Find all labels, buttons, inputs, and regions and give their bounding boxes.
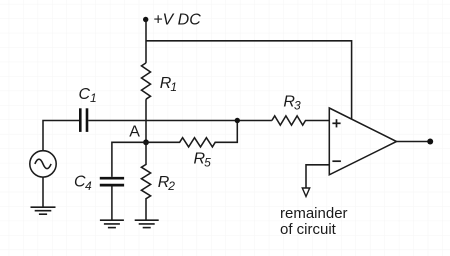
svg-text:5: 5 <box>204 155 211 169</box>
label C1 <box>79 86 97 105</box>
capacitor C4 <box>100 178 124 185</box>
svg-text:1: 1 <box>90 91 97 105</box>
resistor R1 <box>142 63 151 99</box>
wire R1 bottom to node A <box>145 99 147 142</box>
resistor R3 <box>272 116 329 125</box>
svg-text:A: A <box>129 124 140 141</box>
wire source to ground <box>42 177 44 207</box>
wire from +V dot down to R1 <box>145 20 147 63</box>
resistor R5 <box>146 121 237 147</box>
svg-text:of circuit: of circuit <box>280 221 337 238</box>
resistor R2 <box>141 142 150 220</box>
wire node A to C4 <box>112 142 146 177</box>
svg-text:3: 3 <box>294 98 301 112</box>
wire C1 to R3 junction <box>88 120 272 122</box>
label R5 <box>194 150 212 169</box>
label C4 <box>74 174 92 193</box>
ground (source) <box>31 207 56 214</box>
svg-text:1: 1 <box>170 80 177 94</box>
label R3 <box>283 93 301 112</box>
AC source V1 <box>30 151 56 177</box>
wire C4 to ground <box>111 186 113 220</box>
svg-text:4: 4 <box>85 179 92 193</box>
junction dot (R5/R3/C1) <box>235 118 240 123</box>
pin + (non-inverting) <box>332 119 340 127</box>
node +V DC dot <box>143 17 148 22</box>
ground (C4) <box>100 220 124 227</box>
ground (R2) <box>135 220 159 227</box>
arrow to remainder of circuit <box>302 188 309 197</box>
label R1 <box>160 75 177 94</box>
svg-text:2: 2 <box>167 179 175 193</box>
label remainder of circuit <box>280 205 348 238</box>
svg-text:remainder: remainder <box>280 205 348 222</box>
node output dot <box>427 139 433 145</box>
label R2 <box>158 174 176 193</box>
pin - (inverting) <box>332 160 341 162</box>
wire top rail from +V to op-amp top <box>146 41 352 120</box>
wire inverting input to arrow <box>306 165 329 188</box>
wire source to C1 <box>43 121 79 151</box>
capacitor C1 <box>80 108 87 132</box>
svg-text:+V DC: +V DC <box>153 11 201 28</box>
op-amp U1 <box>329 108 396 175</box>
svg-text:C: C <box>79 86 91 103</box>
node A dot <box>143 139 149 145</box>
wire op-amp output <box>397 141 431 143</box>
